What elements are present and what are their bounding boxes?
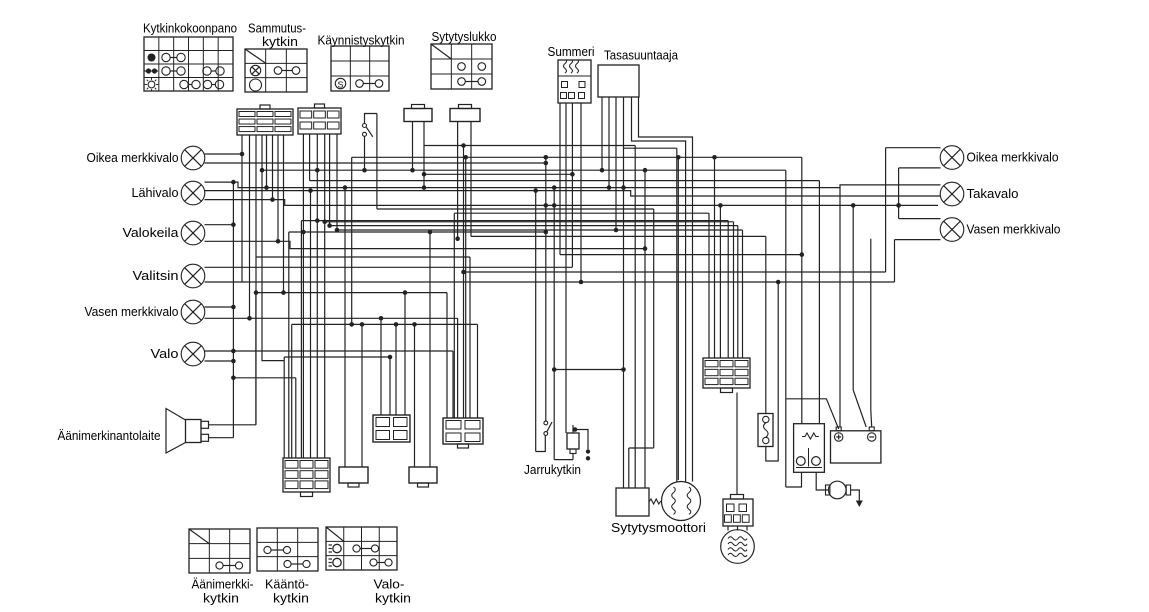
starter motor Sytytysmoottori xyxy=(616,482,701,521)
wire battery plus feed xyxy=(839,188,841,427)
wire CN4 pin2 xyxy=(470,121,472,236)
wire CN2 pin3 xyxy=(316,134,318,458)
wire x351 drop xyxy=(351,157,353,324)
junction xyxy=(315,168,320,173)
wire Tasa pin4 xyxy=(623,97,625,488)
wire CN1 pin4 xyxy=(262,135,284,361)
svg-text:Oikea merkkivalo: Oikea merkkivalo xyxy=(967,150,1059,165)
wire starter pin2 xyxy=(628,448,630,488)
wire Oikea-r top xyxy=(886,147,941,149)
wire CN6 pin1 xyxy=(344,188,346,467)
wire lamp L6 top xyxy=(205,350,454,352)
wire bus y448 xyxy=(629,447,654,449)
wire Tasa pin2 xyxy=(608,97,610,188)
svg-text:Vasen merkkivalo: Vasen merkkivalo xyxy=(85,304,179,319)
lamp Valokeila (left) xyxy=(123,221,205,245)
junction xyxy=(335,228,340,233)
wire Vasen-r bottom xyxy=(895,239,941,241)
svg-text:kytkin: kytkin xyxy=(375,591,411,606)
connector CN6 xyxy=(339,467,368,487)
wire bus y230 (to CN11) xyxy=(337,229,743,231)
wire CN3 pin1 xyxy=(412,121,414,170)
junction xyxy=(422,172,427,177)
switch table Valo-kytkin xyxy=(326,527,397,570)
svg-text:kytkin: kytkin xyxy=(262,34,298,49)
wire relay loop top xyxy=(786,399,839,429)
wire Oikea-r riser xyxy=(885,148,887,272)
lamp Oikea merkkivalo (left) xyxy=(87,146,205,170)
wire bus y209 xyxy=(377,208,654,210)
svg-text:Oikea merkkivalo: Oikea merkkivalo xyxy=(87,150,179,165)
junction xyxy=(410,168,415,173)
wire CN5 feed e xyxy=(295,378,297,458)
junction xyxy=(254,290,259,295)
junction xyxy=(712,155,717,160)
junction xyxy=(281,290,286,295)
wire CN1 pin2 xyxy=(249,135,251,318)
connector CN3 xyxy=(404,105,432,122)
junction xyxy=(461,270,466,275)
switch table Aanimerkki-kytkin xyxy=(189,529,250,573)
wire CN11 feed e xyxy=(742,230,744,358)
svg-text:Vasen merkkivalo: Vasen merkkivalo xyxy=(967,222,1061,237)
wire CN5 feed d xyxy=(300,221,302,458)
svg-text:Valo: Valo xyxy=(151,346,179,361)
connector CN1 (9-pin) xyxy=(237,105,293,135)
wire lamp L3 bottom xyxy=(205,241,646,248)
lamp Takavalo (right) xyxy=(940,182,1018,206)
junction xyxy=(301,230,306,235)
wire CN9 pin d xyxy=(463,146,465,419)
wire lamp L6 bottom xyxy=(205,360,234,362)
brake switch S3 (rear) xyxy=(567,425,579,454)
junction xyxy=(388,355,393,360)
junction xyxy=(231,349,236,354)
junction xyxy=(412,322,417,327)
wire lamp L4 bottom (bus) xyxy=(205,281,895,283)
wire CN5 feed b xyxy=(288,232,290,458)
wire CN7 pin2 xyxy=(389,357,391,415)
junction xyxy=(600,168,605,173)
wire CN1 pin5 xyxy=(266,135,268,188)
wire Tasa pin6 staircase xyxy=(639,97,693,482)
wire CN8 pin2 xyxy=(429,232,431,467)
wire lamp L4 top xyxy=(205,266,573,268)
svg-text:Kytkinkokoonpano: Kytkinkokoonpano xyxy=(143,21,237,36)
wire CN5 feed c xyxy=(291,324,293,458)
svg-text:Äänimerkinantolaite: Äänimerkinantolaite xyxy=(58,428,161,443)
svg-text:kytkin: kytkin xyxy=(203,591,239,606)
svg-text:Valokeila: Valokeila xyxy=(123,225,180,240)
svg-text:Käynnistyskytkin: Käynnistyskytkin xyxy=(318,33,405,48)
junction xyxy=(607,185,612,190)
junction xyxy=(240,152,245,157)
wire CN11 tab drop xyxy=(736,393,738,495)
wire S1 hook drop xyxy=(376,114,378,210)
wire CN11 feed c xyxy=(733,222,735,358)
wire CN1 pin8 xyxy=(283,135,285,293)
wire Tasa pin5 staircase xyxy=(632,97,686,483)
wire CN11 pin1 xyxy=(708,213,710,358)
connector CN5 (9-pin) xyxy=(283,458,330,497)
junction xyxy=(621,367,626,372)
wire bus y148 xyxy=(624,147,677,149)
wire lamp L2 bottom (bus to Takavalo low) xyxy=(205,200,939,206)
wire horn top riser xyxy=(255,293,257,425)
wire CN9 pin a xyxy=(446,293,448,418)
junction xyxy=(428,230,433,235)
wire CN9 pin g xyxy=(465,157,467,418)
svg-text:Tasasuuntaaja: Tasasuuntaaja xyxy=(604,48,679,63)
wire x898 riser xyxy=(898,168,900,219)
wire S1 tail xyxy=(364,136,366,170)
wire CN2 pin5 xyxy=(329,134,331,226)
junction xyxy=(461,143,466,148)
junction xyxy=(676,155,681,160)
wire coil feed 2 xyxy=(677,157,679,480)
wire bus y254 xyxy=(560,254,802,256)
wire bus y236 xyxy=(471,235,766,237)
wire relay feed1 xyxy=(801,157,803,423)
connector CN4 xyxy=(450,105,480,122)
wire Oikea-r bottom xyxy=(899,167,941,169)
svg-text:S: S xyxy=(338,79,344,89)
wire CN7 pin1 xyxy=(380,318,382,415)
connector CN7 (4-pin) xyxy=(373,415,410,442)
junction xyxy=(544,155,549,160)
wire x454 drop xyxy=(453,213,455,418)
junction xyxy=(463,155,468,160)
junction xyxy=(776,280,781,285)
ground arrow xyxy=(856,501,863,508)
wire bus y292 xyxy=(256,292,447,294)
junction xyxy=(579,280,584,285)
junction xyxy=(360,322,365,327)
lamp Valo (left) xyxy=(151,342,205,366)
wire CN11 pin3 xyxy=(719,205,721,358)
wire S2 feed xyxy=(545,157,547,421)
wire relay out left xyxy=(786,472,802,487)
relay (starter) xyxy=(794,424,825,473)
wire bus y232 (to brake sw) xyxy=(289,231,546,233)
wire CN1 pin7 xyxy=(277,135,279,241)
wire Tasa pin1 xyxy=(601,97,603,170)
wire CN9 pin e xyxy=(469,257,471,418)
fuse F1 xyxy=(758,414,773,447)
junction xyxy=(270,197,275,202)
rectifier Tasasuuntaaja xyxy=(598,65,639,97)
wire lamp L1 bottom xyxy=(205,162,546,164)
wire CN9 pin c xyxy=(457,318,459,418)
wire x653 drop xyxy=(653,209,655,448)
wire CN1 pin1 xyxy=(241,135,243,282)
junction xyxy=(552,185,557,190)
junction xyxy=(544,161,549,166)
lamp Vasen merkkivalo (right) xyxy=(940,218,1060,242)
wire lamp L3 top xyxy=(205,224,234,226)
junction xyxy=(343,185,348,190)
junction xyxy=(231,305,236,310)
junction xyxy=(643,246,648,251)
wire CN2 pin2 xyxy=(309,134,311,181)
wire CN11 pin2 xyxy=(714,157,716,358)
junction xyxy=(231,180,236,185)
wire CN4 pin1 xyxy=(457,121,459,239)
junction xyxy=(544,203,549,208)
wire xyxy=(851,490,860,501)
lamp L&#228;hivalo (left) xyxy=(132,181,205,205)
junction xyxy=(455,236,460,241)
lamp Oikea merkkivalo (right) xyxy=(940,146,1058,170)
junction xyxy=(896,203,901,208)
svg-text:kytkin: kytkin xyxy=(273,591,309,606)
wire lamp L5 top xyxy=(205,306,234,308)
junction xyxy=(718,203,723,208)
wire Summeri pin1 xyxy=(559,103,561,255)
wire Summeri pin2 xyxy=(565,103,567,433)
bullet connector xyxy=(586,456,590,460)
wire bus y357 xyxy=(284,356,390,358)
svg-text:Kääntö-: Kääntö- xyxy=(265,577,309,592)
wire xyxy=(575,430,588,450)
junction xyxy=(394,322,399,327)
wire fuse return xyxy=(766,282,778,461)
junction xyxy=(643,168,648,173)
wire CN9 pin f xyxy=(477,324,479,418)
wire starter pin3 xyxy=(634,146,636,489)
wire Summeri pin3 xyxy=(571,103,573,267)
junction xyxy=(327,223,332,228)
wire lamp L2 top (bus, jog to Takavalo) xyxy=(205,182,941,188)
wire lamp L5 bottom xyxy=(205,317,458,319)
wire relay out right xyxy=(816,472,828,490)
switch table Kaynnistyskytkin xyxy=(331,46,389,91)
wire fuse feed xyxy=(765,236,767,413)
lamp Valitsin (left) xyxy=(133,264,205,288)
junction xyxy=(614,228,619,233)
wire bus y213 xyxy=(454,212,709,214)
junction xyxy=(533,188,538,193)
coil (magneto) xyxy=(721,530,755,564)
wire horn top xyxy=(209,424,256,426)
junction xyxy=(379,316,384,321)
wire bus y220 (to CN11) xyxy=(301,220,728,222)
svg-text:Valo-: Valo- xyxy=(374,577,405,592)
junction xyxy=(896,203,901,208)
junction xyxy=(403,290,408,295)
wire bus y145 xyxy=(424,145,635,147)
junction xyxy=(231,376,236,381)
junction xyxy=(570,172,575,177)
wire bus y180 (to relay) xyxy=(310,180,820,182)
wire CN7 pin3 xyxy=(395,324,397,415)
junction xyxy=(800,252,805,257)
horn Aanimerkinantolaite xyxy=(166,409,209,454)
wire bus y377 xyxy=(233,377,295,379)
wire bus y272 (Oikea return) xyxy=(464,271,886,273)
wire bus y225 (to CN11) xyxy=(330,225,738,227)
junction xyxy=(322,220,327,225)
wire CN3 pin2 xyxy=(423,121,425,188)
ignition coil (small) xyxy=(826,481,851,499)
wire CN6 pin2 xyxy=(361,324,363,467)
wire horn bottom xyxy=(209,437,234,439)
bullet connector xyxy=(586,449,590,453)
junction xyxy=(422,185,427,190)
wire lamp L2 mid (bus to Takavalo) xyxy=(205,191,941,196)
wire x573 low xyxy=(572,454,574,460)
junction xyxy=(247,316,252,321)
wire CN1 pin3 xyxy=(255,135,257,425)
wire S2 link xyxy=(536,435,546,451)
junction xyxy=(552,367,557,372)
wire relay feed2 xyxy=(818,181,820,424)
battery xyxy=(831,427,881,463)
svg-text:Lähivalo: Lähivalo xyxy=(132,185,179,200)
junction xyxy=(544,230,549,235)
junction xyxy=(362,168,367,173)
wire bus y157 (to relay) xyxy=(352,156,802,158)
junction xyxy=(573,427,578,432)
wire CN2 pin4 xyxy=(324,134,326,458)
wire CN11 feed d xyxy=(737,226,739,358)
connector CN9 (4-pin) xyxy=(443,418,483,448)
junction xyxy=(231,222,236,227)
junction xyxy=(308,188,313,193)
svg-text:Summeri: Summeri xyxy=(548,44,595,59)
svg-text:Sytytysmoottori: Sytytysmoottori xyxy=(611,520,706,535)
wire lamp L1 top xyxy=(205,153,243,155)
wire CN11 feed b xyxy=(727,221,729,358)
wire bus y324 xyxy=(292,323,478,325)
wire x554 drop xyxy=(553,188,555,460)
wire x894 riser xyxy=(894,240,896,282)
junction xyxy=(621,185,626,190)
wire coil feed xyxy=(676,148,678,481)
svg-text:Sytytyslukko: Sytytyslukko xyxy=(432,29,497,44)
wire battery minus feed xyxy=(870,239,873,427)
wire CN1 pin6 xyxy=(272,135,274,200)
wire bus y369 xyxy=(554,369,623,371)
wire u-link xyxy=(554,459,573,461)
wire CN9 pin b xyxy=(452,351,454,418)
wire CN7 pin4 xyxy=(404,293,406,415)
switch table Sammutus-kytkin xyxy=(245,49,307,92)
buzzer Summeri xyxy=(558,60,591,103)
wire CN5 feed a xyxy=(283,357,285,458)
wire Summeri pin4 xyxy=(580,103,582,282)
wire bus y170 xyxy=(262,169,786,171)
junction xyxy=(264,185,269,190)
junction xyxy=(276,239,281,244)
connector CN8 xyxy=(409,467,437,487)
wire Tasa pin3 xyxy=(615,97,617,230)
svg-text:Takavalo: Takavalo xyxy=(967,186,1019,201)
wire relay loop left xyxy=(785,170,787,487)
lamp Vasen merkkivalo (left) xyxy=(85,300,205,324)
junction xyxy=(552,203,557,208)
wire starter pin4 xyxy=(644,170,646,488)
wire bus y221 (to CN11) xyxy=(325,221,734,223)
connector CN11 (9-pin) xyxy=(703,358,750,393)
wire battery minus diag xyxy=(853,205,866,427)
svg-text:Jarrukytkin: Jarrukytkin xyxy=(524,462,581,477)
wire bus y174 xyxy=(424,173,572,175)
wire CN8 pin1 xyxy=(414,324,416,467)
switch table Kytkinkokoonpano xyxy=(144,37,233,91)
switch S1 (inline) xyxy=(363,114,377,137)
connector CN2 (6-pin) xyxy=(298,104,341,134)
wire CN2 pin1 xyxy=(302,134,304,458)
wire trunk x233 xyxy=(232,182,234,438)
switch table Kaanto-kytkin xyxy=(257,528,318,571)
junction xyxy=(851,203,856,208)
switch table Sytytyslukko xyxy=(431,44,492,89)
svg-text:Äänimerkki-: Äänimerkki- xyxy=(192,577,254,592)
wire CN2 pin6 xyxy=(336,134,338,230)
wire bus y257 xyxy=(256,256,470,258)
wire Vasen-r top xyxy=(899,218,941,220)
brake switch S2 xyxy=(544,421,552,435)
junction xyxy=(349,322,354,327)
junction xyxy=(231,359,236,364)
junction xyxy=(260,168,265,173)
wire S2 return xyxy=(535,191,537,452)
connector CN10 (magneto) xyxy=(723,495,753,531)
svg-text:Valitsin: Valitsin xyxy=(133,268,179,283)
junction xyxy=(315,218,320,223)
wire CN5 feed f xyxy=(310,191,312,458)
